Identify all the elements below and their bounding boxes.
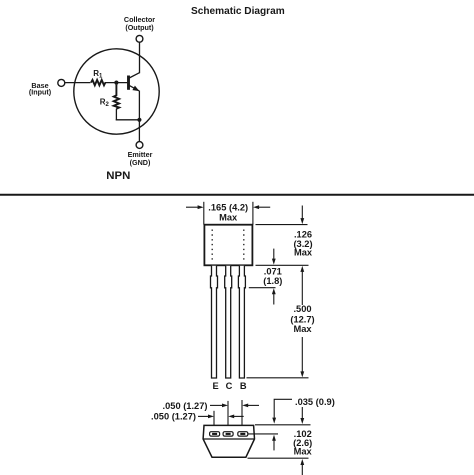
svg-text:.071: .071: [264, 267, 282, 277]
separator rule: [0, 194, 474, 196]
package bottom view outline: [203, 425, 254, 457]
lead end extension line: [247, 377, 309, 379]
node Collector (Output) label: [124, 15, 155, 32]
lead C cross-section pill: [223, 432, 233, 436]
collector terminal: [136, 35, 143, 42]
dimension .050 row1 left arrow: [248, 404, 260, 406]
body bottom extension line: [256, 264, 309, 266]
svg-text:Max: Max: [294, 446, 313, 456]
svg-text:.165 (4.2): .165 (4.2): [208, 203, 248, 213]
svg-text:2: 2: [106, 102, 110, 108]
lead B outline: [238, 266, 245, 378]
svg-text:Max: Max: [219, 213, 238, 223]
dimension .165 extension line right: [252, 202, 254, 225]
transistor outline circle: [74, 49, 159, 134]
transistor collector diagonal: [129, 73, 140, 78]
dimension .071 down arrow: [273, 249, 275, 259]
dimension text .165 (4.2) Max: [208, 203, 248, 223]
svg-text:.050 (1.27): .050 (1.27): [163, 401, 208, 411]
dimension text .102 (2.6) Max: [293, 429, 312, 457]
dimension .126 down arrow: [301, 206, 303, 219]
dimension text .126 (3.2) Max: [293, 230, 312, 258]
svg-text:(1.8): (1.8): [263, 276, 282, 286]
wire emitter vertical: [138, 91, 140, 142]
node junction dot emitter/R2: [137, 118, 141, 122]
svg-text:B: B: [240, 381, 247, 391]
wire base to R1: [65, 82, 91, 84]
dimension .500 up arrow: [301, 271, 303, 305]
lead E outline: [211, 266, 218, 378]
emitter terminal: [136, 142, 143, 149]
dimension .050 row2 left arrow: [234, 415, 244, 417]
lead E cross-section pill: [210, 432, 220, 436]
svg-text:Max: Max: [294, 247, 313, 257]
transistor Q1 bar: [127, 76, 130, 90]
svg-text:C: C: [226, 381, 233, 391]
bottom view bottom extension line: [248, 457, 309, 459]
node Base (Input) label: [29, 81, 52, 97]
svg-text:(Output): (Output): [125, 23, 154, 32]
svg-text:(Input): (Input): [29, 87, 52, 96]
lead pill leader line: [248, 433, 278, 435]
svg-text:.500: .500: [293, 304, 311, 314]
dimension .165 left arrow: [186, 206, 199, 208]
lead C outline: [225, 266, 232, 378]
dimension .500 down arrow: [301, 337, 303, 372]
node Emitter (GND) label: [128, 150, 153, 167]
base terminal: [58, 79, 65, 86]
lead shoulder extension line: [249, 287, 276, 289]
svg-text:Max: Max: [293, 324, 312, 334]
dimension .035 leader: [274, 399, 292, 418]
body top extension line: [256, 224, 308, 226]
dimension .102 up arrow: [301, 465, 303, 475]
svg-text:NPN: NPN: [106, 170, 130, 182]
dimension text .500 (12.7) Max: [290, 304, 314, 334]
package body TO-92 front: [204, 225, 252, 266]
dimension .050 row2 right arrow: [198, 415, 209, 417]
extension line lead B bottom view: [241, 400, 243, 431]
transistor emitter diagonal with arrow: [129, 85, 139, 90]
wire R2 to emitter: [116, 119, 140, 121]
wire R1 to transistor base: [105, 82, 128, 84]
extension line lead C bottom view: [227, 401, 229, 431]
wire R2 bottom: [115, 109, 117, 121]
node junction dot base/R2: [114, 81, 118, 85]
package bottom view face line: [203, 438, 254, 440]
resistor R1: [91, 80, 105, 85]
hidden lead dashed line right: [243, 230, 245, 260]
svg-text:Schematic Diagram: Schematic Diagram: [191, 6, 285, 17]
wire collector vertical: [139, 42, 141, 73]
label R2: [100, 97, 110, 108]
svg-text:(GND): (GND): [130, 158, 151, 167]
dimension .050 row1 right arrow: [210, 404, 223, 406]
svg-text:.050 (1.27): .050 (1.27): [151, 412, 196, 422]
dimension .165 (4.2) Max extension line left: [203, 202, 205, 225]
lead B cross-section pill: [238, 432, 248, 436]
resistor R2: [114, 85, 119, 109]
extension line lead E bottom view: [213, 411, 215, 431]
hidden lead dashed line left: [211, 230, 213, 260]
svg-text:.035 (0.9): .035 (0.9): [295, 397, 335, 407]
bottom view top extension line: [255, 424, 311, 426]
dimension .035 up arrow: [273, 440, 275, 450]
dimension .165 right arrow: [258, 206, 270, 208]
dimension .071 up arrow: [273, 294, 275, 305]
label R1: [93, 69, 103, 80]
dimension text .071 (1.8): [263, 267, 282, 287]
dimension .102 down arrow: [301, 407, 303, 419]
svg-text:1: 1: [99, 74, 103, 80]
svg-text:E: E: [212, 381, 218, 391]
